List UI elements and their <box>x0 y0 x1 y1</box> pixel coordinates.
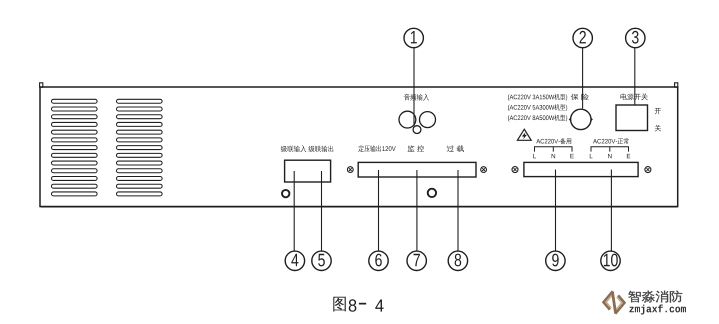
label 级联输入 级联输出 <box>281 145 333 152</box>
leader line 5 <box>321 171 323 251</box>
label 定压输出120V <box>358 145 395 152</box>
audio input jack left <box>399 111 416 128</box>
vent column 2 <box>117 99 163 196</box>
callout circle 8 <box>448 251 467 270</box>
callout circle 3 <box>626 28 645 47</box>
cascade connector J1 <box>285 160 331 182</box>
callout circle 5 <box>312 251 331 270</box>
callout circle 9 <box>546 251 565 270</box>
caption 图 8-4 <box>333 297 383 312</box>
leader line 2 <box>582 48 584 109</box>
label (AC220V 8A500W机型) <box>508 115 567 122</box>
label 电源开关 <box>621 93 648 100</box>
label (AC220V 3A150W机型) <box>508 94 567 101</box>
leader line 1 <box>413 48 415 126</box>
bracket AC220V-正常 <box>591 147 629 152</box>
screw below output terminal <box>428 189 436 197</box>
pin label L (normal) <box>590 154 593 158</box>
label (AC220V 5A300W机型) <box>508 104 567 111</box>
pin label N (normal) <box>608 154 612 158</box>
output terminal block J2 <box>358 162 476 177</box>
label 监 控 <box>408 145 424 152</box>
callout circle 2 <box>573 28 592 47</box>
screw below cascade connector <box>282 190 289 197</box>
leader line 9 <box>555 170 557 252</box>
callout circle 1 <box>404 28 423 47</box>
pin label N (backup) <box>552 154 556 158</box>
watermark logo icon <box>604 291 625 314</box>
label AC220V-正常 <box>593 138 629 144</box>
vent column 1 <box>52 99 98 196</box>
label AC220V-备用 <box>536 138 571 144</box>
screw left of output terminal <box>347 167 353 173</box>
audio input jack right <box>420 112 436 128</box>
pin label E (normal) <box>627 154 630 158</box>
label 保 险 <box>571 94 589 101</box>
callout circle 7 <box>407 251 426 270</box>
leader line 7 <box>416 170 418 251</box>
watermark text zmjaxf.com <box>629 305 686 315</box>
watermark text 智淼消防 <box>628 290 682 302</box>
mounting tab left <box>40 83 43 87</box>
warning triangle symbol <box>517 129 531 140</box>
callout circle 6 <box>369 251 388 270</box>
label 音频输入 <box>404 94 429 101</box>
bracket AC220V-备用 <box>535 147 573 152</box>
screw right of output terminal <box>481 167 487 173</box>
mounting tab right <box>675 83 678 87</box>
screw left of AC terminal block <box>512 167 518 173</box>
fuse holder F1 <box>570 109 593 129</box>
pin label L (backup) <box>533 154 536 158</box>
pin label E (backup) <box>570 154 573 158</box>
AC terminal block J3 <box>524 162 638 176</box>
callout circle 4 <box>285 251 304 270</box>
callout circle 10 <box>601 251 620 270</box>
leader line 3 <box>634 48 636 105</box>
label 过 载 <box>447 145 464 152</box>
leader line 6 <box>378 170 380 251</box>
leader line 8 <box>457 170 459 251</box>
label 开 <box>655 108 661 114</box>
power switch S1 <box>616 105 648 131</box>
audio input small jack <box>413 126 421 134</box>
panel outline <box>40 87 678 207</box>
leader line 4 <box>293 171 295 251</box>
label 关 <box>655 125 661 132</box>
leader line 10 <box>610 170 612 252</box>
screw right of AC terminal block <box>645 167 651 173</box>
